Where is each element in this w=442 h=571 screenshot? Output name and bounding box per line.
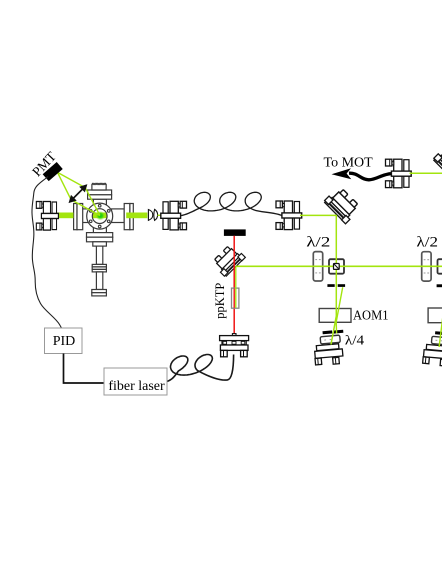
- green beam FC2 to mirror M1: [300, 214, 337, 216]
- flange bolts: [89, 204, 110, 227]
- chamber mid flange stack: [92, 264, 106, 267]
- rejected order beam at AOM1: [336, 287, 343, 333]
- PBS1 inner cube: [334, 264, 340, 270]
- chamber centre flange inner circle: [92, 209, 107, 224]
- beam dump BD1 above dichroic: [224, 229, 246, 236]
- collection cone to PMT: [58, 172, 101, 215]
- thick green probe beam left segment: [57, 213, 73, 219]
- main horizontal green beam: [236, 265, 442, 267]
- dichroic mirror DM: [211, 243, 245, 277]
- waveplate WP2: [422, 252, 431, 281]
- beam inside viewport: [92, 213, 107, 219]
- thick green probe beam right segment: [126, 213, 147, 219]
- mirror M1: [323, 186, 361, 224]
- PID box: [45, 328, 83, 354]
- chamber left flange: [74, 204, 77, 230]
- waveplate WP1: [313, 252, 322, 281]
- chamber right arm tube: [112, 209, 125, 223]
- AOM2 box (cut): [428, 308, 442, 323]
- dump bar right column: [437, 284, 442, 287]
- chamber top arm tube: [93, 199, 106, 205]
- fluorescence dot: [96, 211, 106, 221]
- retro assembly with lambda/4 and coupler FC4: [313, 329, 346, 365]
- svg-text:To MOT: To MOT: [324, 155, 374, 170]
- chamber bottom neck: [93, 242, 107, 246]
- svg-text:PID: PID: [53, 334, 76, 349]
- chamber bottom arm tube: [93, 226, 106, 233]
- svg-text:λ/4: λ/4: [345, 334, 364, 349]
- red fundamental beam: [233, 236, 235, 334]
- AOM1 box: [319, 309, 351, 323]
- PMT body: [43, 162, 63, 181]
- chamber centre flange outer circle: [87, 203, 113, 229]
- To MOT arrow: [349, 173, 391, 180]
- beam into right retro: [439, 316, 442, 347]
- chamber right flange: [124, 204, 130, 230]
- chamber bottom cap: [92, 290, 107, 293]
- fiber coupler FC2: [276, 201, 302, 230]
- fiber patchcord loops FC1 to FC2: [181, 192, 282, 215]
- PID to fiber laser wire: [64, 354, 105, 384]
- chamber bottom thin tube upper: [96, 246, 102, 264]
- fiber from laser to FC3: [165, 355, 233, 382]
- collimating lens pair: [148, 210, 152, 221]
- fiber coupler FC1: [161, 201, 187, 230]
- svg-text:λ/2: λ/2: [417, 235, 439, 251]
- svg-text:λ/2: λ/2: [306, 235, 330, 251]
- corner mirror M2 (cut at edge): [433, 143, 442, 181]
- PBS1 outer: [329, 259, 344, 274]
- svg-text:ppKTP: ppKTP: [213, 283, 227, 319]
- right retro assembly (cut): [423, 330, 442, 366]
- green SHG beam from crystal to dichroic: [235, 266, 237, 308]
- chamber top valve cap with corrugated top: [92, 184, 106, 191]
- chamber bottom flange pair: [87, 233, 113, 238]
- fiber laser box: [104, 368, 167, 395]
- svg-text:AOM1: AOM1: [353, 307, 389, 322]
- green beam MOT coupler to corner mirror: [410, 172, 442, 174]
- PBS2 outer (cut): [438, 259, 442, 274]
- thin beam into coupler FC1: [158, 214, 164, 216]
- chamber top flange: [88, 190, 112, 195]
- ppKTP crystal: [232, 288, 239, 308]
- chamber bottom thin tube lower: [96, 272, 102, 290]
- input mount left of chamber: [36, 202, 58, 231]
- dump bars above AOM1: [327, 284, 334, 287]
- SHG input fiber coupler FC3: [220, 334, 249, 357]
- svg-text:fiber laser: fiber laser: [108, 379, 165, 394]
- MOT fiber coupler: [386, 159, 412, 188]
- chamber left arm tube: [82, 209, 89, 223]
- collection lens double arrow: [70, 186, 86, 202]
- green beam M1 down through PBS1 into AOM1 and retro coupler: [331, 215, 336, 345]
- PMT cable: [32, 177, 62, 329]
